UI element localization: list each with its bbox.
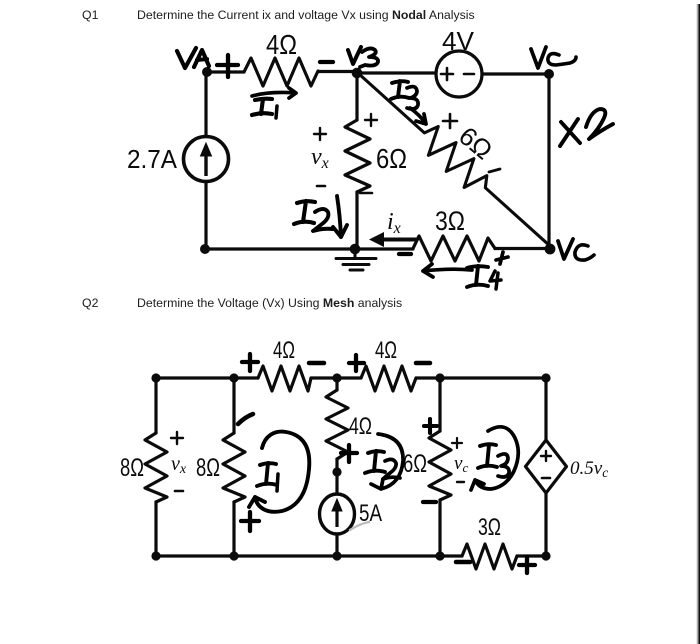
resistor R 3ohm Q2 bottom <box>462 544 517 569</box>
svg-text:2.7A: 2.7A <box>127 144 178 174</box>
hand label VC bottom <box>558 239 573 259</box>
node bottom left <box>200 244 210 254</box>
resistor R 6ohm diagonal Q1 <box>350 64 561 258</box>
wire branch 3 top <box>335 378 338 390</box>
resistor R 4ohm Q2 top-left <box>258 366 311 391</box>
wire bottom mid to 3ohm <box>355 247 413 250</box>
node ground junction <box>350 244 361 255</box>
hand plus before 4ohm top-right <box>349 355 364 371</box>
plus printed vc 6ohm <box>452 438 462 448</box>
node Q2 top b2 <box>229 373 238 382</box>
plus printed left of 6ohm (vx) <box>314 128 326 140</box>
wire branch 2 top <box>232 378 235 433</box>
hand loop I3 <box>471 427 518 490</box>
plus inside 4V source <box>441 68 453 80</box>
node Q2 top-right <box>541 373 550 382</box>
wire VB to 4V source <box>357 71 436 74</box>
node Q2 top-left <box>151 373 160 382</box>
arrow ix pointing left <box>369 232 416 247</box>
node Q2 bottom b2 <box>229 551 238 560</box>
wire left vertical bottom <box>204 182 207 250</box>
hand plus right of 3ohm <box>496 252 508 264</box>
wire left branch 1 bottom <box>154 502 157 556</box>
wire left vertical top (VA to source) <box>204 72 207 137</box>
svg-text:8Ω: 8Ω <box>120 454 144 482</box>
hand loop I1 <box>249 432 309 512</box>
current source 5A circle <box>320 494 355 534</box>
svg-text:4Ω: 4Ω <box>349 413 372 440</box>
label 6ohm diagonal (rotated) <box>453 121 498 166</box>
wire bottom rail right <box>517 554 546 557</box>
hand I3 text <box>478 444 497 468</box>
hand plus after VA <box>217 55 238 77</box>
resistor R 8ohm branch1 <box>145 433 167 502</box>
node VC top <box>544 69 554 79</box>
wire 3ohm to VC bottom <box>495 247 551 250</box>
wire bottom rail left <box>156 554 462 557</box>
resistor R 4ohm Q1 top <box>244 58 318 86</box>
hand I1 text <box>257 463 277 486</box>
hand minus left of 6ohm bottom <box>423 500 436 504</box>
hand plus before I2 <box>341 445 357 462</box>
plus inside diamond <box>541 451 551 461</box>
voltage source V1 4V circle <box>436 51 482 97</box>
node Q2 bottom-right <box>541 551 550 560</box>
hand label VC top <box>531 47 546 68</box>
minus printed vx branch1 <box>175 490 183 493</box>
wire left branch 1 top <box>154 378 157 433</box>
svg-text:4Ω: 4Ω <box>273 337 295 364</box>
hand I4 with left arrow <box>423 264 472 277</box>
svg-text:Determine the Voltage (Vx) Usi: Determine the Voltage (Vx) Using Mesh an… <box>137 296 402 310</box>
wire 6ohm to ground node <box>355 192 358 249</box>
wire branch 5 top <box>544 378 547 440</box>
current source I 2.7A circle <box>184 137 229 182</box>
hand plus left of 6ohm top <box>424 419 437 433</box>
wire bottom left rail <box>205 247 355 250</box>
hand minus after 4ohm top-right <box>416 361 430 366</box>
node Q2 bottom-left <box>151 551 160 560</box>
wire between top resistors <box>311 376 361 379</box>
minus inside diamond <box>542 477 550 480</box>
svg-text:4Ω: 4Ω <box>375 337 397 364</box>
node VA <box>202 67 212 77</box>
ground symbol <box>336 250 376 270</box>
plus printed diagonal 6ohm <box>443 114 457 128</box>
node Q2 bottom b3 <box>332 551 341 560</box>
svg-text:4Ω: 4Ω <box>266 29 297 60</box>
hand minus after 4ohm top-left <box>309 361 324 366</box>
hand I2 with down arrow <box>294 201 315 224</box>
svg-text:6Ω: 6Ω <box>403 450 427 478</box>
svg-text:4V: 4V <box>442 26 475 56</box>
hand I2 text <box>365 451 385 473</box>
hand loop I2 <box>371 434 403 489</box>
node Q2 top b4 <box>435 373 444 382</box>
resistor R 6ohm Q2 <box>429 431 451 500</box>
wire 4V to VC <box>482 72 549 75</box>
node Q2 above 5A <box>332 467 341 476</box>
wire branch 3 middle <box>335 459 338 494</box>
minus printed diagonal 6ohm <box>489 169 500 172</box>
dependent source diamond 0.5vc <box>526 440 567 493</box>
node Q2 bottom b4 <box>435 551 444 560</box>
resistor R 3ohm Q1 bottom <box>413 236 495 261</box>
wire VB down to 6ohm <box>355 73 358 120</box>
hand I1 with arrow <box>252 88 296 98</box>
resistor R 4ohm Q2 top-right <box>361 366 416 391</box>
svg-text:Determine the Current ix and v: Determine the Current ix and voltage Vx … <box>137 8 475 22</box>
wire branch 3 bottom <box>335 534 338 556</box>
hand label VA <box>177 48 196 68</box>
node VC bottom <box>545 244 556 255</box>
resistor R 4ohm branch3 vertical <box>326 390 348 459</box>
minus printed right-bottom of 6ohm <box>360 192 372 195</box>
hand x2 annotation <box>560 119 580 146</box>
wire top rail left <box>156 376 258 379</box>
hand plus before 4ohm top-left <box>242 354 258 371</box>
hand plus below I1 <box>241 512 259 531</box>
wire branch 2 bottom <box>232 502 235 556</box>
svg-text:Q1: Q1 <box>82 8 99 22</box>
svg-text:Q2: Q2 <box>82 296 99 310</box>
minus printed left of 6ohm (vx) <box>317 185 325 188</box>
wire 4ohm to VB <box>318 70 357 73</box>
minus printed vc 6ohm <box>457 481 464 483</box>
svg-text:3Ω: 3Ω <box>478 514 501 541</box>
wire branch 5 bottom <box>544 493 547 556</box>
arrow inside 5A source <box>332 499 342 527</box>
svg-text:8Ω: 8Ω <box>196 454 220 482</box>
hand label VB <box>348 47 361 64</box>
wire branch 4 top <box>438 378 441 431</box>
wire VA to 4ohm <box>207 70 244 73</box>
resistor R 8ohm branch2 <box>223 433 245 502</box>
hand minus before VB <box>320 60 333 64</box>
arrow inside 2.7A source <box>201 143 212 176</box>
hand plus right of 3ohm Q2 <box>519 557 535 573</box>
wire branch 4 bottom <box>438 500 441 556</box>
node Q2 top b3 <box>332 373 341 382</box>
faint pencil mark near 5A <box>350 522 369 530</box>
hand I3 with arrow <box>391 81 409 99</box>
svg-text:3Ω: 3Ω <box>435 206 465 236</box>
plus printed right-top of 6ohm <box>365 114 377 126</box>
wire right vertical VC <box>547 74 550 248</box>
wire top rail right <box>416 376 546 379</box>
hand minus near branch2 top <box>238 414 253 424</box>
hand minus left of 3ohm <box>399 252 411 256</box>
hand minus left of 3ohm Q2 <box>456 560 470 565</box>
resistor R 6ohm vertical Q1 <box>345 120 370 192</box>
plus printed vx branch1 <box>171 432 183 444</box>
svg-text:6Ω: 6Ω <box>376 143 407 174</box>
minus inside 4V source <box>464 73 474 76</box>
node VB <box>352 68 363 79</box>
